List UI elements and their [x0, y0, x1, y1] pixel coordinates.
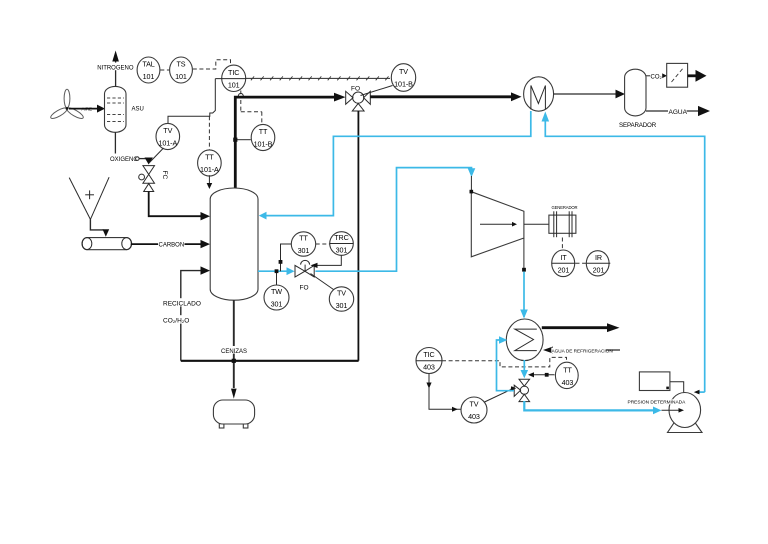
svg-text:101-B: 101-B — [394, 80, 413, 89]
svg-text:201: 201 — [558, 265, 570, 274]
pipe: gasifier ash out — [233, 300, 235, 388]
pipe: FO valve down to recycle loop — [357, 111, 359, 361]
fan (air intake propeller) — [49, 89, 84, 120]
svg-text:TV: TV — [470, 400, 479, 409]
wire: suction into pump center — [662, 409, 680, 411]
ash pot — [219, 424, 224, 429]
cooling water in — [552, 349, 620, 351]
svg-text:AGUA: AGUA — [669, 109, 688, 116]
wire TV301 to valve — [311, 274, 334, 290]
svg-text:SEPARADOR: SEPARADOR — [619, 122, 657, 129]
turbine outlet pipe — [523, 238, 525, 269]
svg-text:TS: TS — [177, 60, 186, 69]
ASU vessel — [105, 86, 127, 132]
separator vessel — [625, 69, 646, 116]
svg-text:CO₂/H₂O: CO₂/H₂O — [163, 318, 189, 325]
pipe: recycle loop bottom — [181, 360, 359, 362]
CO2/H2O label — [162, 315, 192, 323]
instrument TIC 403 — [416, 348, 442, 374]
wire TV403 to valve — [485, 389, 514, 402]
wire TT403 to pipe — [533, 374, 555, 376]
instrument TT 301 — [291, 232, 315, 256]
turbine — [471, 192, 524, 257]
signal wire TS to TIC 101 — [193, 60, 231, 69]
pump base — [668, 414, 703, 433]
wire TT101A to gasifier — [208, 175, 210, 184]
svg-text:TIC: TIC — [423, 350, 434, 359]
instrument TIC 101 — [222, 65, 246, 91]
pipe: oxygen into gasifier — [149, 192, 201, 217]
valve 403 (3-way) — [514, 379, 529, 401]
gasifier vessel — [210, 188, 258, 300]
svg-text:301: 301 — [336, 301, 348, 310]
cyan pipe: valve to turbine — [315, 168, 471, 272]
wire M to separator — [553, 93, 617, 95]
svg-text:TAL: TAL — [142, 60, 154, 69]
svg-text:AGUA DE REFRIGERACION: AGUA DE REFRIGERACION — [552, 348, 613, 353]
cyan pipe: cooler to valve403 — [523, 360, 525, 371]
instrument TV 301 — [329, 287, 353, 311]
signal IT201-IR201 — [576, 262, 587, 264]
svg-text:GENERADOR: GENERADOR — [552, 205, 578, 210]
pipe: coal into gasifier — [131, 243, 201, 245]
pipe: cooled gas out (thick) — [542, 326, 608, 329]
wire: oxygen from ASU — [114, 132, 116, 153]
svg-text:TV: TV — [399, 67, 408, 76]
pipe: gasifier top to FO valve (thick) — [235, 97, 334, 188]
instrument TV 403 — [461, 397, 487, 423]
instrument TRC 301 — [330, 232, 354, 256]
wire: air to ASU — [69, 108, 98, 110]
shaft turbine-generator — [524, 223, 549, 225]
svg-text:RECICLADO: RECICLADO — [163, 301, 201, 308]
valve FO 301 — [295, 260, 314, 277]
instrument IR 201 — [586, 251, 609, 276]
svg-text:201: 201 — [593, 265, 605, 274]
pump — [669, 393, 701, 428]
svg-text:ASU: ASU — [132, 107, 144, 113]
svg-text:301: 301 — [336, 246, 348, 255]
wire box to pump — [670, 382, 684, 393]
svg-text:101-A: 101-A — [200, 165, 219, 174]
svg-text:403: 403 — [468, 412, 480, 421]
cyan pipe: pump loop up into M — [545, 121, 704, 392]
svg-text:TT: TT — [299, 234, 308, 243]
svg-text:403: 403 — [562, 378, 574, 387]
svg-text:OXIGENO: OXIGENO — [110, 157, 138, 163]
svg-text:FC: FC — [161, 171, 168, 180]
svg-text:CENIZAS: CENIZAS — [221, 349, 247, 355]
instrument TV 101-A — [156, 123, 180, 149]
svg-text:AIRE: AIRE — [82, 107, 93, 112]
svg-text:PRESION DETERMINADA: PRESION DETERMINADA — [628, 399, 687, 405]
svg-text:NITROGENO: NITROGENO — [97, 65, 134, 71]
svg-text:FO: FO — [300, 285, 309, 292]
valve FC (oxygen control) — [139, 166, 155, 192]
instrument TT 101-A — [198, 150, 222, 176]
wire separator to CO2 filter — [646, 75, 662, 77]
pipe: recycle into gasifier — [181, 271, 201, 361]
signal generator to IT201 — [561, 238, 563, 252]
instrument TW 301 — [264, 285, 289, 310]
svg-text:TIC: TIC — [228, 68, 239, 77]
svg-text:TT: TT — [205, 153, 214, 162]
signal TT301-TRC301 — [316, 243, 330, 245]
svg-text:TV: TV — [163, 126, 172, 135]
svg-text:TRC: TRC — [334, 233, 348, 242]
instrument TS 101 — [170, 57, 193, 83]
cyan pipe: valve403 to pump — [524, 401, 653, 410]
svg-text:CARBON: CARBON — [159, 243, 185, 249]
CO2 product arrow — [688, 74, 697, 77]
cyan pipe: recirculation valve403 to cooler inlet — [497, 340, 515, 391]
wire TT301 to pipe — [281, 244, 292, 271]
instrument TAL 101 — [137, 57, 160, 83]
instrument TT 101-B — [251, 124, 275, 150]
screw conveyor — [82, 238, 132, 250]
signal wire TIC to TV101A (solid, with hop) — [168, 79, 215, 124]
wire TV101A to FC valve — [150, 148, 164, 163]
cyan pipe: gasifier to FO301 valve — [258, 270, 287, 272]
signal wire TIC to TT 101-B (dashed with hop) — [241, 91, 262, 126]
svg-text:TV: TV — [337, 289, 346, 298]
signal TIC403 to TT403 (dashed) — [442, 357, 567, 367]
wire: nitrogen out (up) — [115, 61, 117, 87]
wire TRC301 to valve — [317, 255, 341, 265]
svg-text:101: 101 — [175, 72, 187, 81]
RECICLADO label — [162, 298, 198, 306]
cooler (heat exchanger) — [506, 319, 543, 361]
svg-text:FO: FO — [351, 86, 360, 93]
svg-text:CO₂: CO₂ — [651, 75, 663, 81]
cyan pipe: M bottom to gasifier (recycle steam) — [266, 111, 531, 216]
wire TW301 to pipe — [276, 271, 278, 285]
svg-text:403: 403 — [423, 363, 435, 372]
data link TIC 101 to TV 101-B (hatched) — [246, 76, 390, 80]
svg-text:TT: TT — [563, 366, 572, 375]
svg-text:101: 101 — [143, 72, 155, 81]
wire TV101B to valve — [361, 86, 393, 96]
pipe: valve to M condenser (thick) — [370, 95, 511, 98]
svg-text:TT: TT — [259, 127, 268, 136]
NITROGENO label — [97, 63, 132, 71]
svg-text:301: 301 — [271, 300, 283, 309]
cyan pipe: into pump right — [700, 391, 705, 393]
signal wire TAL-TS — [160, 69, 169, 71]
wire separator to AGUA out — [646, 110, 699, 112]
svg-text:IR: IR — [595, 253, 602, 262]
instrument TV 101-B — [391, 64, 415, 92]
wire hopper to conveyor — [90, 219, 103, 230]
coal hopper — [69, 178, 90, 220]
svg-text:IT: IT — [560, 253, 567, 262]
svg-text:101-B: 101-B — [254, 140, 273, 149]
svg-text:101: 101 — [228, 80, 240, 89]
svg-text:TW: TW — [271, 287, 282, 296]
svg-text:101-A: 101-A — [158, 139, 177, 148]
instrument TT 403 — [555, 362, 578, 388]
signal wire to TT 101-A (dashed drop) — [208, 116, 210, 150]
filter box — [667, 63, 688, 87]
positioner box at pump — [639, 372, 670, 391]
instrument IT 201 — [552, 250, 575, 277]
wire TT101B to pipe — [235, 139, 251, 141]
signal TIC403 to TV403 — [429, 374, 461, 410]
svg-text:301: 301 — [298, 246, 310, 255]
condenser M — [524, 77, 554, 111]
